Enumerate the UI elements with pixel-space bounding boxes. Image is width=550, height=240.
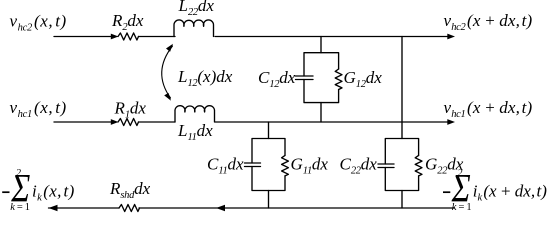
resistor Rshd [119,205,140,212]
svg-text:vhc2 (x + dx, t): vhc2 (x + dx, t) [444,11,533,33]
arrowhead row2 end (right) [447,119,455,125]
wire row2 between resistor and inductor [139,121,176,123]
svg-text:C22dx: C22dx [340,155,378,177]
label -sum i_k(x,t) left [2,166,74,213]
capacitor-conductance box C11/G11 [252,139,285,191]
coupling arc L12 [162,46,173,98]
resistor G22 (vertical zigzag) [415,155,422,176]
capacitor C12 plates [296,75,314,77]
svg-text:2: 2 [458,168,463,179]
resistor R2 [118,33,139,40]
resistor G11 (vertical zigzag) [282,155,289,176]
capacitor C22 plates [378,163,394,165]
wire row1 right segment [215,36,449,38]
svg-text:C11dx: C11dx [207,155,244,177]
inductor L11 [175,106,215,122]
wire stub C11 box to bottom line [268,191,270,209]
svg-text:k=1: k=1 [10,202,32,213]
svg-text:k=1: k=1 [452,202,474,213]
svg-text:ik (x + dx, t): ik (x + dx, t) [473,182,547,204]
wire bottom return line [49,207,120,209]
svg-text:vhc1 (x + dx, t): vhc1 (x + dx, t) [444,98,533,120]
inductor L22 [174,20,214,37]
resistor G12 (vertical zigzag) [335,69,342,90]
arrowhead row2 mid (right) [111,119,119,125]
wire stub row2 to C11 box [268,122,270,139]
svg-text:L11dx: L11dx [177,121,213,143]
arrowhead row1 end (right) [447,34,455,40]
svg-text:L22dx: L22dx [178,0,215,18]
svg-text:Rshddx: Rshddx [109,179,151,201]
arrowhead bottom left end (left) [49,205,58,211]
wire stub row1 to C12 box [320,37,322,53]
arrowhead coupling arc bottom [164,93,171,101]
capacitor-conductance box C12/G12 [304,53,339,103]
wire stub C12 box to row2 [320,103,322,122]
resistor R1 [118,119,139,126]
arrowhead row1 mid (right) [111,34,119,40]
svg-text:G12dx: G12dx [344,68,383,90]
svg-text:C12dx: C12dx [258,68,296,90]
svg-text:2: 2 [16,168,21,179]
svg-text:R2dx: R2dx [111,11,144,33]
wire stub C22 box to bottom line [401,191,403,209]
wire vertical from row1 through row2 to C22 box [401,37,403,139]
arrowhead bottom mid (left) [216,205,225,211]
arrowhead coupling arc top [166,44,173,52]
capacitor-conductance box C22/G22 [385,139,418,191]
wire row1 left segment [54,36,112,38]
wire row2 left segment [54,121,112,123]
capacitor C11 plates [245,162,261,164]
wire bottom between resistor and right end [139,207,454,209]
svg-text:vhc1 (x, t): vhc1 (x, t) [10,98,67,120]
label -sum i_k(x+dx,t) right [443,166,547,213]
wire row1 between resistor and inductor [139,36,176,38]
svg-text:R1dx: R1dx [114,99,147,121]
wire row2 right segment [215,121,449,123]
svg-text:L12(x)dx: L12(x)dx [177,67,233,89]
svg-text:G11dx: G11dx [291,155,329,177]
svg-text:ik (x, t): ik (x, t) [32,182,75,204]
svg-text:vhc2 (x, t): vhc2 (x, t) [10,11,67,33]
